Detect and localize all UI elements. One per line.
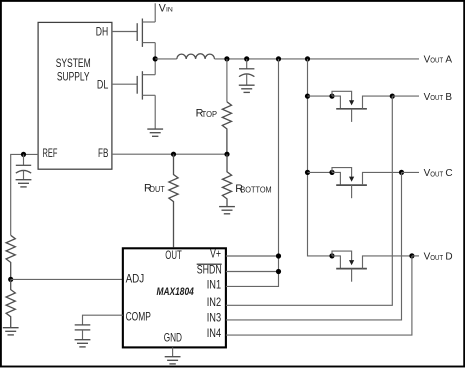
svg-text:C: C xyxy=(445,168,452,179)
ic U1 MAX1804 xyxy=(123,248,226,348)
node output cap tap xyxy=(244,56,249,61)
svg-text:SUPPLY: SUPPLY xyxy=(57,70,90,83)
svg-text:OUT: OUT xyxy=(149,184,165,194)
svg-text:A: A xyxy=(445,55,452,66)
label VOUT C xyxy=(424,168,453,179)
svg-text:TOP: TOP xyxy=(202,109,218,119)
wire VOUT B stub xyxy=(392,95,419,97)
node LX xyxy=(153,56,158,61)
ground REF cap xyxy=(16,180,32,187)
transistor Q1 high-side NMOS xyxy=(112,19,155,47)
svg-text:FB: FB xyxy=(98,147,109,160)
ground COMP cap xyxy=(75,340,91,347)
node Q4 drain / IN3 xyxy=(399,170,404,175)
wire V+ pin xyxy=(226,255,279,257)
transistor Q3 switch B PMOS xyxy=(329,91,392,122)
svg-text:OUT: OUT xyxy=(430,95,444,102)
wire VIN stub xyxy=(154,3,156,22)
resistor ROUT xyxy=(169,154,178,247)
svg-text:SYSTEM: SYSTEM xyxy=(56,57,91,70)
svg-text:OUT: OUT xyxy=(165,249,182,262)
wire ADJ xyxy=(11,278,123,280)
wire VOUT D stub xyxy=(412,255,419,257)
wire Q2 source to ground xyxy=(154,95,156,129)
node Q5 drain / IN4 / VOUT D xyxy=(409,253,414,258)
node SHDN junction xyxy=(276,269,281,274)
wire VOUT C stub xyxy=(402,171,420,173)
resistor R1 upper divider xyxy=(6,235,15,279)
svg-text:GND: GND xyxy=(164,332,182,345)
label RBOTTOM xyxy=(235,183,271,195)
svg-text:V+: V+ xyxy=(210,248,221,261)
wire IN4 to VOUT D xyxy=(226,256,412,335)
node Q3 drain / IN2 xyxy=(390,94,395,99)
wire VOUT A rail xyxy=(215,58,420,60)
wire IN2 to Q3 drain xyxy=(226,96,392,305)
label VOUT D xyxy=(424,252,453,263)
wire IN3 to Q4 drain xyxy=(226,172,402,320)
transistor Q4 switch C PMOS xyxy=(329,168,401,199)
wire COMP cap to ground xyxy=(82,330,84,340)
wire COMP xyxy=(83,315,123,325)
svg-text:IN4: IN4 xyxy=(207,327,222,340)
node V+ junction xyxy=(276,253,281,258)
label VOUT A xyxy=(424,55,453,66)
label VOUT B xyxy=(424,92,453,103)
svg-text:D: D xyxy=(445,252,452,263)
svg-text:IN1: IN1 xyxy=(207,279,221,292)
node ADJ junction xyxy=(8,277,13,282)
wire LX to inductor xyxy=(155,58,177,60)
node rail row C xyxy=(305,170,310,175)
node rail row B xyxy=(305,94,310,99)
ground Q2 source xyxy=(147,129,163,136)
transistor Q5 switch D PMOS xyxy=(329,251,412,282)
svg-text:COMP: COMP xyxy=(126,310,151,323)
svg-text:DL: DL xyxy=(97,78,109,91)
node FB / RBOTTOM tap xyxy=(224,152,229,157)
svg-text:SHDN: SHDN xyxy=(197,263,222,276)
label ROUT xyxy=(144,183,165,195)
svg-text:MAX1804: MAX1804 xyxy=(157,286,195,298)
ground output cap xyxy=(239,85,255,92)
ground RBOTTOM xyxy=(219,207,235,214)
node REF cap tap xyxy=(21,152,26,157)
wire switch source rail xyxy=(308,59,333,256)
block SYSTEM SUPPLY xyxy=(38,22,112,169)
wire FB xyxy=(112,153,227,155)
resistor RTOP xyxy=(222,59,231,154)
wire REF xyxy=(11,154,38,235)
wire V+ to VOUT A rail xyxy=(226,59,279,287)
svg-text:REF: REF xyxy=(43,147,58,160)
label RTOP xyxy=(196,108,218,120)
capacitor COMP xyxy=(75,325,91,330)
ground U1 GND xyxy=(165,357,181,364)
inductor L1 xyxy=(177,54,215,59)
svg-text:IN: IN xyxy=(166,7,173,14)
ground R2 xyxy=(3,328,19,335)
wire GND pin xyxy=(172,347,174,356)
svg-text:BOTTOM: BOTTOM xyxy=(240,185,271,195)
node RTOP tap xyxy=(224,56,229,61)
svg-text:ADJ: ADJ xyxy=(126,273,145,286)
capacitor output (polarized) xyxy=(239,59,254,85)
svg-text:OUT: OUT xyxy=(430,58,444,65)
node V+ rail tap xyxy=(276,56,281,61)
capacitor REF bypass (polarized) xyxy=(16,154,31,179)
svg-text:B: B xyxy=(445,92,452,103)
wire rail to Q3 xyxy=(308,95,333,97)
wire rail to Q4 xyxy=(308,171,333,173)
wire SHDN pin xyxy=(226,271,279,273)
label VIN xyxy=(159,2,173,14)
wire LX node vertical xyxy=(154,43,156,75)
node switch rail tap xyxy=(305,56,310,61)
node FB / ROUT tap xyxy=(171,152,176,157)
transistor Q2 low-side NMOS xyxy=(112,71,155,99)
svg-text:OUT: OUT xyxy=(430,255,444,262)
resistor R2 lower divider xyxy=(6,279,15,327)
resistor RBOTTOM xyxy=(222,154,231,206)
svg-text:DH: DH xyxy=(96,25,108,38)
svg-text:IN2: IN2 xyxy=(207,296,221,309)
svg-text:OUT: OUT xyxy=(430,171,444,178)
svg-text:IN3: IN3 xyxy=(207,312,221,325)
